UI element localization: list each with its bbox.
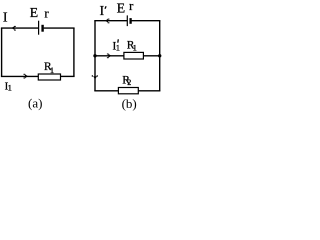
wire: (a) top wire left segment to battery <box>1 27 38 29</box>
wire: (b) middle branch left segment to R1 <box>95 55 124 57</box>
prime mark of I' <box>105 6 106 9</box>
svg-text:1: 1 <box>133 42 137 52</box>
wire: (b) left rail <box>94 21 96 91</box>
svg-text:1: 1 <box>50 65 54 75</box>
prime mark of I1' <box>117 39 120 42</box>
wire: (b) top wire right segment from battery <box>132 20 161 22</box>
svg-text:2: 2 <box>127 78 131 87</box>
resistor R1 (circuit a) box <box>38 74 60 80</box>
resistor R1 (circuit b) box <box>124 52 143 59</box>
arrow: current I1 on (a) bottom wire, pointing right <box>24 74 29 79</box>
svg-text:E: E <box>117 2 126 17</box>
wire: (b) right rail <box>159 21 161 91</box>
svg-text:(b): (b) <box>122 96 137 111</box>
battery cell (a): short thick plate <box>41 25 43 32</box>
battery cell (b): short thick plate <box>129 18 131 24</box>
wire: (b) top wire left segment to battery <box>94 20 127 22</box>
svg-text:r: r <box>129 0 134 13</box>
wire: (b) bottom wire left segment to R2 <box>94 90 118 92</box>
wire: (a) top wire right segment from battery <box>44 27 75 29</box>
battery cell (a): long plate <box>38 21 40 35</box>
resistor R2 (circuit b) box <box>118 88 138 94</box>
svg-text:E: E <box>30 6 39 21</box>
svg-text:r: r <box>44 5 49 20</box>
svg-text:I: I <box>3 11 8 26</box>
arrow: current I1' on (b) middle branch, pointing right <box>107 54 112 59</box>
junction node (left rail / middle branch) <box>93 54 96 57</box>
wire: (a) left rail <box>1 28 3 76</box>
wire: (b) middle branch right segment from R1 <box>143 55 159 57</box>
arrow: current on (b) left rail, pointing down <box>92 75 98 79</box>
junction node (right rail / middle branch) <box>158 54 161 57</box>
wire: (a) bottom wire left segment to R1 <box>1 75 38 77</box>
svg-text:1: 1 <box>116 43 120 53</box>
battery cell (b): long plate <box>126 15 128 26</box>
wire: (b) bottom wire right segment from R2 <box>138 90 160 92</box>
svg-text:(a): (a) <box>28 95 42 110</box>
svg-text:1: 1 <box>8 82 12 92</box>
wire: (a) bottom wire right segment from R1 <box>61 75 75 77</box>
svg-text:I: I <box>100 4 105 19</box>
wire: (a) right rail <box>73 28 75 76</box>
arrow: current I on (a) top wire, pointing left <box>11 26 15 31</box>
arrow: current I' on (b) top wire, pointing left <box>105 19 109 24</box>
